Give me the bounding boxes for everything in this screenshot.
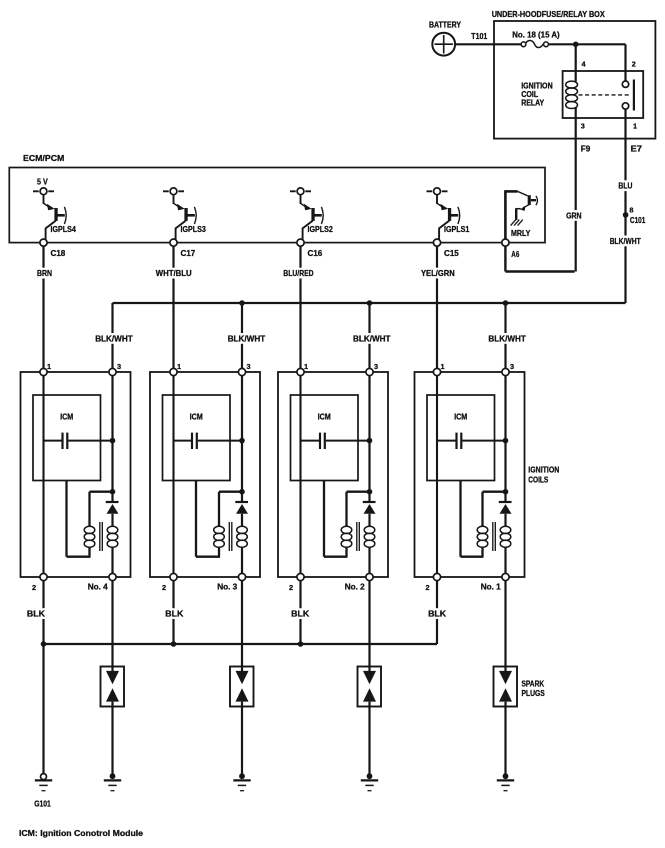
svg-text:YEL/GRN: YEL/GRN — [421, 269, 455, 278]
svg-text:3: 3 — [581, 121, 585, 130]
svg-text:IGPLS3: IGPLS3 — [181, 225, 207, 234]
svg-text:E7: E7 — [631, 145, 643, 154]
svg-text:BLK/WHT: BLK/WHT — [95, 334, 133, 343]
svg-text:2: 2 — [162, 583, 166, 592]
svg-text:3: 3 — [510, 362, 514, 371]
svg-text:BLK/WHT: BLK/WHT — [228, 334, 266, 343]
svg-text:ICM: ICM — [60, 412, 73, 421]
svg-text:BATTERY: BATTERY — [429, 21, 461, 30]
svg-text:BLK: BLK — [165, 610, 183, 619]
svg-text:ICM: Ignition Conotrol Module: ICM: Ignition Conotrol Module — [19, 829, 144, 838]
svg-text:IGNITION: IGNITION — [528, 466, 559, 475]
svg-text:BLK: BLK — [27, 610, 45, 619]
svg-text:C16: C16 — [308, 249, 323, 258]
svg-text:IGPLS4: IGPLS4 — [51, 225, 77, 234]
svg-text:RELAY: RELAY — [521, 98, 544, 107]
svg-text:BLU: BLU — [618, 182, 632, 191]
svg-text:UNDER-HOODFUSE/RELAY BOX: UNDER-HOODFUSE/RELAY BOX — [492, 10, 605, 19]
svg-text:C18: C18 — [51, 249, 66, 258]
svg-text:ICM: ICM — [454, 412, 467, 421]
svg-text:C17: C17 — [181, 249, 196, 258]
svg-text:ICM: ICM — [318, 412, 331, 421]
svg-text:No. 3: No. 3 — [217, 583, 237, 592]
svg-text:2: 2 — [632, 59, 636, 68]
svg-text:IGPLS2: IGPLS2 — [308, 225, 334, 234]
svg-text:3: 3 — [117, 362, 121, 371]
svg-text:ECM/PCM: ECM/PCM — [23, 154, 64, 163]
svg-text:8: 8 — [629, 206, 633, 215]
svg-text:BLK/WHT: BLK/WHT — [610, 237, 641, 246]
svg-text:2: 2 — [289, 583, 293, 592]
svg-text:C101: C101 — [630, 216, 646, 225]
svg-text:G101: G101 — [34, 799, 51, 808]
svg-text:1: 1 — [177, 362, 181, 371]
svg-text:C15: C15 — [444, 249, 459, 258]
svg-text:PLUGS: PLUGS — [522, 689, 546, 698]
svg-text:No. 4: No. 4 — [88, 583, 108, 592]
svg-text:1: 1 — [304, 362, 308, 371]
svg-text:WHT/BLU: WHT/BLU — [156, 269, 192, 278]
svg-text:MRLY: MRLY — [511, 229, 531, 238]
svg-text:3: 3 — [247, 362, 251, 371]
svg-text:2: 2 — [426, 583, 430, 592]
svg-text:BLK: BLK — [291, 610, 309, 619]
svg-text:3: 3 — [374, 362, 378, 371]
svg-text:5 V: 5 V — [37, 178, 48, 187]
svg-text:No. 2: No. 2 — [345, 583, 365, 592]
svg-text:IGPLS1: IGPLS1 — [444, 225, 470, 234]
svg-text:COILS: COILS — [528, 476, 548, 485]
svg-text:1: 1 — [441, 362, 445, 371]
svg-text:T101: T101 — [471, 32, 487, 41]
svg-text:No. 1: No. 1 — [481, 583, 501, 592]
svg-text:BLU/RED: BLU/RED — [283, 269, 313, 278]
svg-text:F9: F9 — [581, 145, 591, 154]
svg-text:BLK/WHT: BLK/WHT — [488, 334, 526, 343]
svg-text:A6: A6 — [511, 250, 519, 259]
svg-text:1: 1 — [633, 121, 637, 130]
svg-text:2: 2 — [32, 583, 36, 592]
svg-text:1: 1 — [47, 362, 51, 371]
svg-text:No. 18 (15 A): No. 18 (15 A) — [512, 30, 560, 39]
svg-text:BRN: BRN — [37, 269, 52, 278]
svg-text:GRN: GRN — [566, 211, 582, 220]
svg-text:BLK: BLK — [428, 610, 446, 619]
svg-text:BLK/WHT: BLK/WHT — [353, 334, 391, 343]
svg-text:SPARK: SPARK — [522, 679, 545, 688]
svg-text:ICM: ICM — [190, 412, 203, 421]
